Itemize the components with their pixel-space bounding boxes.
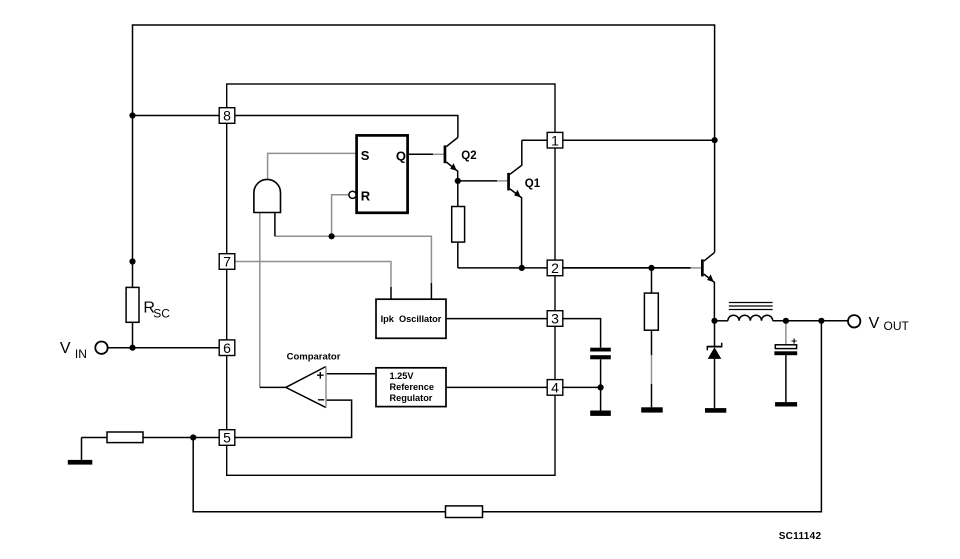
svg-text:3: 3 — [551, 311, 559, 327]
svg-text:Reference: Reference — [390, 382, 434, 392]
svg-text:V: V — [869, 315, 880, 332]
svg-text:IN: IN — [75, 347, 87, 361]
svg-text:SC11142: SC11142 — [779, 531, 822, 542]
svg-text:Comparator: Comparator — [287, 351, 341, 362]
svg-text:Regulator: Regulator — [390, 393, 433, 403]
svg-text:8: 8 — [223, 108, 231, 124]
svg-text:5: 5 — [223, 430, 231, 446]
svg-text:V: V — [60, 340, 71, 357]
svg-text:6: 6 — [223, 340, 231, 356]
svg-text:2: 2 — [551, 260, 559, 276]
svg-text:Ipk Oscillator: Ipk Oscillator — [381, 314, 442, 324]
svg-text:R: R — [361, 188, 371, 203]
svg-text:Q1: Q1 — [525, 178, 541, 190]
svg-text:1.25V: 1.25V — [390, 371, 415, 381]
svg-text:4: 4 — [551, 380, 559, 396]
svg-text:S: S — [361, 148, 370, 163]
svg-text:Q2: Q2 — [461, 150, 476, 162]
svg-text:OUT: OUT — [884, 319, 910, 333]
svg-text:7: 7 — [223, 254, 231, 270]
svg-text:SC: SC — [153, 307, 170, 321]
svg-text:Q: Q — [396, 148, 406, 163]
svg-text:1: 1 — [551, 132, 559, 148]
